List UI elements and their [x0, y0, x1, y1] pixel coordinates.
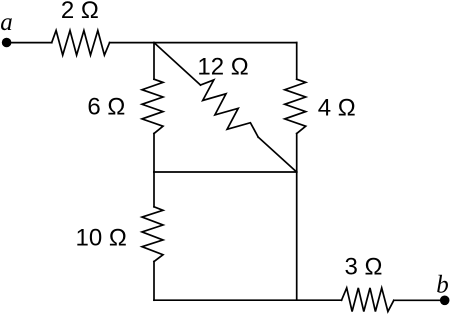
resistor 12ohm — [201, 80, 259, 137]
terminal b — [440, 296, 450, 306]
resistor 3ohm — [342, 288, 394, 312]
wire R3 to terminal b — [394, 299, 442, 301]
wire mid-right node down to bottom rail — [296, 172, 298, 300]
wire a to R2 — [9, 42, 52, 44]
resistor 4ohm — [285, 79, 306, 133]
wire R6 to mid rail — [153, 134, 155, 173]
svg-text:4 Ω: 4 Ω — [318, 94, 356, 121]
wire diagonal top node to R12 — [154, 43, 201, 85]
wire mid rail down to R10 — [153, 172, 155, 207]
wire bottom rail — [154, 299, 342, 301]
svg-text:b: b — [436, 271, 449, 298]
resistor 10ohm — [142, 207, 163, 262]
wire R2 to top-right corner — [110, 42, 297, 44]
svg-text:3 Ω: 3 Ω — [345, 254, 383, 281]
svg-text:10 Ω: 10 Ω — [76, 225, 127, 252]
wire top node down to R6 — [153, 43, 155, 80]
resistor 2ohm — [52, 31, 110, 56]
svg-text:2 Ω: 2 Ω — [61, 0, 99, 24]
resistor 6ohm — [142, 79, 163, 133]
svg-text:12 Ω: 12 Ω — [197, 54, 248, 81]
wire top-right corner down to R4 — [296, 43, 298, 80]
wire R10 to bottom rail — [153, 262, 155, 301]
wire mid rail — [154, 171, 297, 173]
wire R4 to mid-right node — [296, 134, 298, 173]
svg-text:a: a — [0, 9, 13, 36]
wire R12 to mid-right node — [258, 137, 297, 172]
svg-text:6 Ω: 6 Ω — [87, 94, 125, 121]
terminal a — [2, 38, 12, 48]
